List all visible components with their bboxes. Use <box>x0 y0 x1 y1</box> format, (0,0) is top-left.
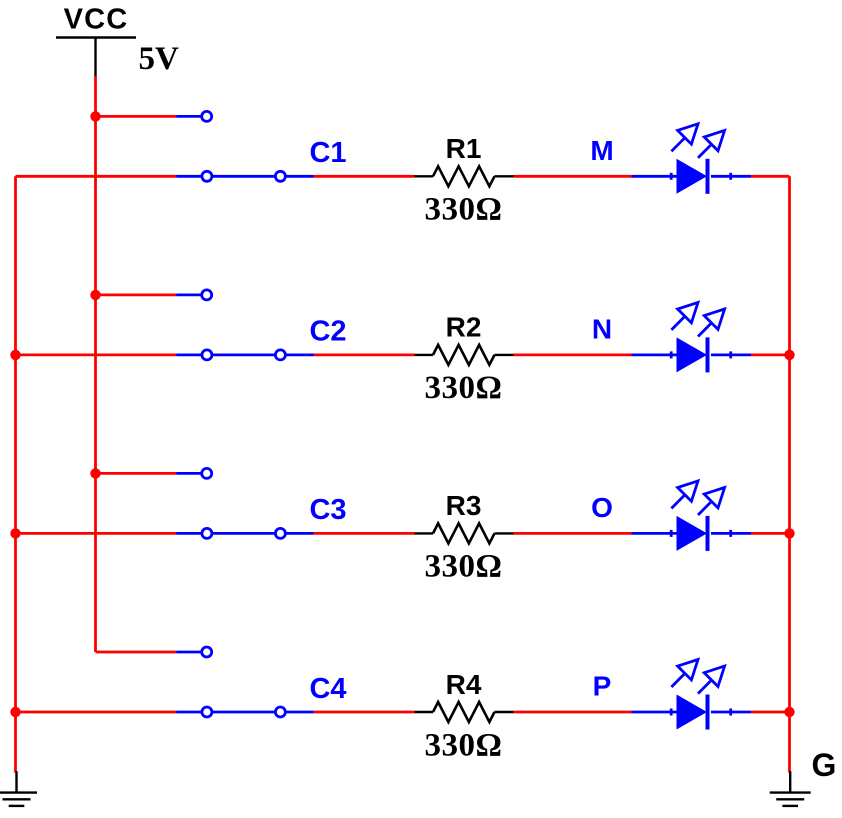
switch S4 throw terminal <box>275 707 285 717</box>
junction on VCC feed for switch S2 <box>90 290 100 300</box>
switch S2 upper contact terminal <box>202 290 212 300</box>
resistor R4 <box>415 669 514 764</box>
wire left ground rail vertical <box>14 176 17 772</box>
wire node C3 (red) <box>314 532 415 535</box>
wire switch S1 upper contact (blue) <box>176 115 201 118</box>
svg-text:O: O <box>591 492 613 523</box>
wire LED D3 cathode (blue) <box>711 532 751 535</box>
wire row 3 from left rail (red) <box>16 532 177 535</box>
wire LED D1 anode (blue) <box>632 175 677 178</box>
svg-text:VCC: VCC <box>64 4 129 36</box>
wire switch S3 blade (blue) <box>176 532 313 535</box>
wire switch S2 upper contact (red) <box>96 293 177 296</box>
svg-text:N: N <box>592 314 612 345</box>
wire row 2 from left rail (red) <box>16 353 177 356</box>
junction left rail row 3 <box>10 528 20 538</box>
switch S1 throw terminal <box>275 171 285 181</box>
switch S4 pole terminal <box>202 707 212 717</box>
wire node O (red) <box>514 532 632 535</box>
wire switch S4 blade (blue) <box>176 711 313 714</box>
wire node C1 (red) <box>314 175 415 178</box>
switch S2 pole terminal <box>202 350 212 360</box>
wire LED D2 cathode (blue) <box>711 353 751 356</box>
wire switch S4 upper contact (blue) <box>176 651 201 654</box>
wire VCC feed vertical <box>94 77 97 652</box>
switch S3 pole terminal <box>202 528 212 538</box>
wire node N (red) <box>514 353 632 356</box>
resistor R1 <box>415 133 514 228</box>
svg-text:R1: R1 <box>446 133 482 164</box>
LED D4 <box>670 660 732 730</box>
LED D3 <box>670 481 732 551</box>
junction on VCC feed for switch S1 <box>90 111 100 121</box>
switch S3 throw terminal <box>275 528 285 538</box>
svg-text:C1: C1 <box>309 137 346 169</box>
resistor R2 <box>415 312 514 407</box>
svg-text:C2: C2 <box>309 316 346 348</box>
wire row 1 to right rail (red) <box>751 175 790 178</box>
switch S1 upper contact terminal <box>202 111 212 121</box>
wire node M (red) <box>514 175 632 178</box>
wire LED D1 cathode (blue) <box>711 175 751 178</box>
wire node C2 (red) <box>314 353 415 356</box>
svg-text:330Ω: 330Ω <box>425 370 503 406</box>
svg-text:330Ω: 330Ω <box>425 727 503 763</box>
svg-text:C3: C3 <box>309 494 346 526</box>
svg-text:R3: R3 <box>446 490 482 521</box>
switch S4 upper contact terminal <box>202 647 212 657</box>
svg-text:5V: 5V <box>139 41 180 77</box>
wire switch S3 upper contact (blue) <box>176 472 201 475</box>
LED D1 <box>670 124 732 194</box>
svg-text:G: G <box>812 747 837 783</box>
resistor R3 <box>415 490 514 585</box>
svg-text:330Ω: 330Ω <box>425 549 503 585</box>
svg-text:R2: R2 <box>446 312 482 343</box>
wire right ground rail vertical <box>788 176 791 772</box>
wire row 4 to right rail (red) <box>751 711 790 714</box>
LED D2 <box>670 302 732 372</box>
svg-text:R4: R4 <box>446 669 482 700</box>
junction right rail row 3 <box>784 528 794 538</box>
switch S3 upper contact terminal <box>202 468 212 478</box>
junction left rail row 2 <box>10 350 20 360</box>
wire row 4 from left rail (red) <box>16 711 177 714</box>
ground right <box>770 771 811 806</box>
wire switch S2 upper contact (blue) <box>176 293 201 296</box>
wire switch S4 upper contact (red) <box>96 651 177 654</box>
junction right rail row 4 <box>784 707 794 717</box>
wire row 1 from left rail (red) <box>16 175 177 178</box>
wire node C4 (red) <box>314 711 415 714</box>
wire LED D2 anode (blue) <box>632 353 677 356</box>
junction on VCC feed for switch S3 <box>90 468 100 478</box>
switch S2 throw terminal <box>275 350 285 360</box>
svg-text:P: P <box>593 671 612 702</box>
wire switch S2 blade (blue) <box>176 353 313 356</box>
svg-text:330Ω: 330Ω <box>425 192 503 228</box>
wire node P (red) <box>514 711 632 714</box>
wire switch S3 upper contact (red) <box>96 472 177 475</box>
junction left rail row 4 <box>10 707 20 717</box>
wire switch S1 blade (blue) <box>176 175 313 178</box>
wire LED D4 anode (blue) <box>632 711 677 714</box>
switch S1 pole terminal <box>202 171 212 181</box>
wire row 2 to right rail (red) <box>751 353 790 356</box>
wire switch S1 upper contact (red) <box>96 115 177 118</box>
ground left <box>0 771 37 806</box>
junction right rail row 2 <box>784 350 794 360</box>
power symbol VCC <box>56 4 136 77</box>
wire row 3 to right rail (red) <box>751 532 790 535</box>
svg-text:M: M <box>590 135 613 166</box>
wire LED D4 cathode (blue) <box>711 711 751 714</box>
svg-text:C4: C4 <box>309 673 346 705</box>
wire LED D3 anode (blue) <box>632 532 677 535</box>
